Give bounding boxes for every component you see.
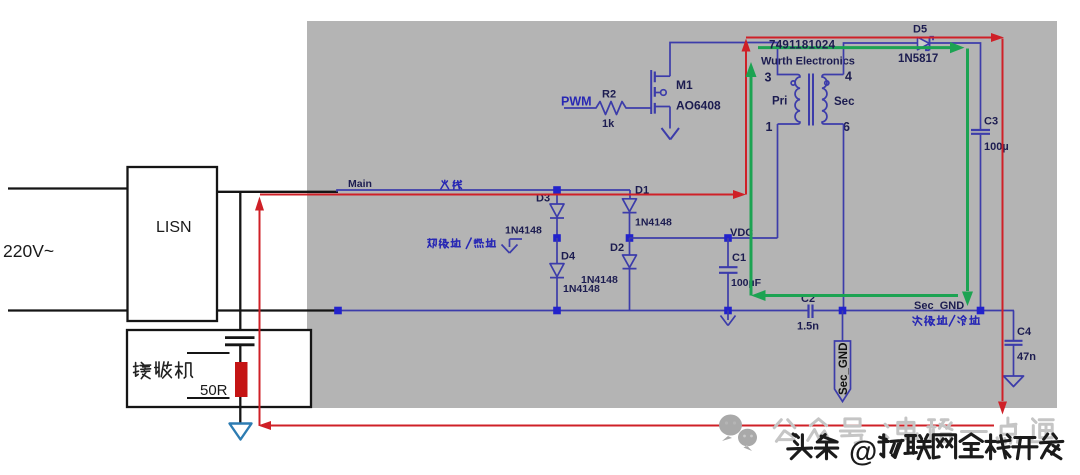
wire D1 cathode	[629, 213, 631, 238]
node neutral entry	[334, 307, 342, 315]
wire M1 drain to pin3	[670, 43, 798, 77]
label 接收机 (receiver)	[134, 363, 151, 379]
node C3 to rail	[977, 307, 985, 315]
diode D1	[623, 199, 637, 213]
resistor 50R body	[235, 362, 248, 397]
label 初级地/热地 (primary gnd)	[428, 239, 437, 248]
wire C4 bottom lead	[1013, 346, 1015, 376]
node D1-D2-VDC junction	[626, 234, 634, 242]
transformer T1 primary winding	[778, 75, 801, 125]
label 次级地/冷地 (secondary gnd)	[913, 316, 922, 325]
transistor M1 drain lead	[655, 75, 670, 77]
diode D5 schottky	[918, 37, 930, 50]
capacitor C-coupling in receiver	[225, 338, 255, 345]
svg-text:@: @	[849, 436, 877, 468]
red loop left rise	[259, 210, 261, 426]
svg-text:Sec_GND: Sec_GND	[914, 300, 964, 312]
wire LISN out neutral	[217, 309, 338, 311]
wire AC neutral (220V bottom)	[8, 309, 128, 311]
wire to SecGND flag	[842, 311, 844, 342]
diode D2	[623, 255, 637, 269]
svg-text:Sec: Sec	[834, 96, 855, 108]
red arrowhead up at main	[255, 197, 264, 211]
svg-text:M1: M1	[676, 78, 693, 92]
svg-text:100µ: 100µ	[984, 141, 1009, 153]
svg-text:D2: D2	[610, 242, 624, 254]
wire D4 anode	[556, 238, 558, 263]
red loop live rail segment	[260, 194, 733, 196]
svg-text:D5: D5	[913, 24, 927, 36]
red arrowhead down right	[998, 402, 1007, 415]
ground triangle C4	[1004, 376, 1024, 387]
wire pin6 to SecGND	[843, 124, 845, 311]
wire C1 top lead	[727, 238, 729, 267]
transformer T1 secondary top lead	[825, 74, 844, 76]
wire C1 bottom lead	[727, 274, 729, 311]
transformer T1 secondary winding	[822, 75, 844, 125]
red arrowhead left bottom	[258, 421, 271, 430]
svg-text:Wurth Electronics: Wurth Electronics	[761, 56, 855, 68]
transformer polarity dot secondary	[825, 81, 829, 85]
receiver terminal line bottom	[187, 397, 230, 399]
wire C3 bottom lead	[980, 135, 982, 311]
ground arrow primary	[502, 239, 523, 253]
svg-text:Main: Main	[348, 178, 372, 190]
green loop right drop	[966, 49, 969, 292]
node SecGND flag tap	[839, 307, 847, 315]
capacitor C3	[971, 130, 990, 134]
svg-text:Sec_GND: Sec_GND	[838, 343, 850, 395]
svg-text:100µF: 100µF	[731, 277, 762, 289]
wire D2 cathode	[629, 269, 631, 311]
red loop rise at transformer	[745, 51, 747, 195]
node VDC at C1	[724, 234, 732, 242]
svg-text:1N5817: 1N5817	[898, 53, 938, 65]
transistor M1 gate bar	[650, 70, 652, 114]
green arrowhead right	[950, 42, 965, 53]
receiver terminal line top	[187, 352, 230, 354]
transistor M1 source lead	[655, 107, 670, 129]
green loop bottom segment	[765, 294, 958, 297]
net flag Sec_GND	[835, 341, 851, 402]
capacitor C1	[719, 267, 738, 273]
red arrowhead right at transformer	[733, 190, 746, 199]
svg-text:C1: C1	[732, 252, 746, 264]
svg-text:R2: R2	[602, 89, 616, 101]
green arrowhead left	[751, 290, 766, 301]
node D3-D4 junction	[553, 234, 561, 242]
svg-text:C3: C3	[984, 116, 998, 128]
red arrowhead up at top	[742, 39, 751, 52]
wire D1 anode	[629, 190, 631, 199]
svg-text:1.5n: 1.5n	[797, 321, 819, 333]
wire AC live (220V top)	[8, 187, 128, 189]
diode D4	[550, 264, 564, 278]
svg-text:4: 4	[845, 70, 852, 84]
wire VDC rail	[630, 237, 778, 239]
node D4 to neutral	[553, 307, 561, 315]
transistor M1 body dot	[655, 92, 660, 94]
svg-text:1: 1	[766, 120, 773, 134]
red loop top segment	[746, 37, 991, 39]
green arrowhead down	[962, 292, 973, 307]
svg-text:D4: D4	[561, 251, 576, 263]
svg-text:Pri: Pri	[772, 96, 787, 108]
grey schematic panel	[307, 21, 1057, 408]
svg-text:C4: C4	[1017, 326, 1032, 338]
svg-text:7491181024: 7491181024	[769, 40, 836, 52]
capacitor C4	[1005, 341, 1023, 345]
svg-text:3: 3	[765, 71, 772, 85]
wire secondary ground rail	[813, 310, 1015, 312]
svg-text:1N4148: 1N4148	[635, 217, 672, 229]
wire receiver tap	[239, 192, 241, 337]
transformer polarity dot primary	[791, 81, 795, 85]
wire D4 cathode	[556, 278, 558, 311]
green arrowhead up	[746, 62, 757, 77]
label 火线 (live)	[441, 180, 449, 189]
green loop top segment	[758, 46, 950, 49]
wire rail to C4	[1013, 311, 1015, 341]
wire LISN out live	[217, 191, 338, 193]
wire D3 anode	[556, 190, 558, 204]
transistor M1 channel	[654, 72, 656, 114]
ground earth triangle	[230, 424, 252, 440]
receiver box 接收机	[127, 330, 311, 407]
red loop bottom segment	[271, 425, 994, 427]
wechat icon bubbles	[719, 415, 757, 451]
svg-text:LISN: LISN	[156, 219, 192, 236]
svg-text:1k: 1k	[602, 118, 615, 130]
svg-text:PWM: PWM	[561, 95, 592, 109]
node C1 to neutral	[724, 307, 732, 315]
red loop right drop	[1002, 39, 1004, 402]
svg-text:50R: 50R	[200, 382, 228, 399]
transformer T1 core	[809, 74, 813, 126]
wire neutral rail to C2	[338, 310, 808, 312]
red arrowhead right top	[991, 33, 1004, 42]
LISN box U-LISN	[128, 167, 218, 321]
diode D3	[550, 204, 564, 218]
node Main at D3	[553, 186, 561, 194]
watermark 公众号：电路一点通	[774, 420, 795, 442]
wire Main live rail	[337, 190, 630, 192]
watermark 头条 @物联网全栈开发	[788, 434, 812, 459]
green loop left rise	[750, 76, 753, 296]
resistor R2	[564, 102, 651, 115]
wire pin1 to VDC	[777, 124, 779, 238]
wire cap to resistor	[239, 345, 241, 423]
wire D3 cathode	[556, 218, 558, 238]
wire D5 to C3	[930, 43, 981, 129]
svg-text:1N4148: 1N4148	[581, 274, 618, 286]
ground arrow primary rail	[721, 311, 736, 326]
wire pin4 to D5	[844, 43, 918, 75]
wire D2 anode	[629, 238, 631, 255]
svg-text:1N4148: 1N4148	[505, 225, 542, 237]
capacitor C2	[809, 305, 813, 319]
svg-text:AO6408: AO6408	[676, 99, 721, 113]
svg-text:47n: 47n	[1017, 351, 1036, 363]
svg-text:220V~: 220V~	[3, 241, 54, 261]
ground arrow M1 source	[662, 128, 680, 140]
